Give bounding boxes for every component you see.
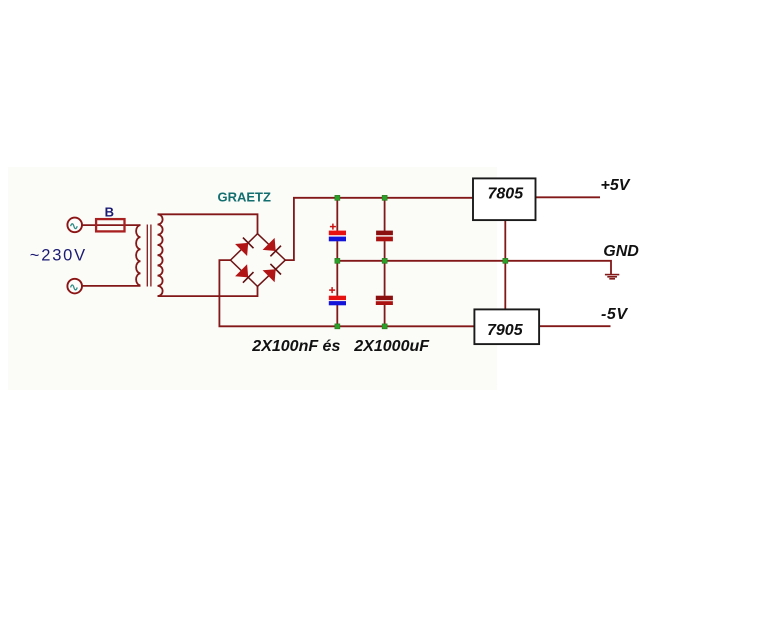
svg-text:-5V: -5V	[601, 306, 628, 323]
svg-text:2X1000uF: 2X1000uF	[353, 338, 430, 355]
svg-text:~230V: ~230V	[30, 247, 87, 265]
svg-text:+5V: +5V	[601, 177, 631, 194]
svg-text:2X100nF és: 2X100nF és	[251, 338, 340, 355]
svg-text:B: B	[105, 205, 114, 220]
svg-text:GRAETZ: GRAETZ	[218, 190, 272, 205]
svg-text:GND: GND	[603, 243, 639, 260]
svg-text:7905: 7905	[487, 322, 524, 339]
svg-text:7805: 7805	[488, 186, 525, 203]
